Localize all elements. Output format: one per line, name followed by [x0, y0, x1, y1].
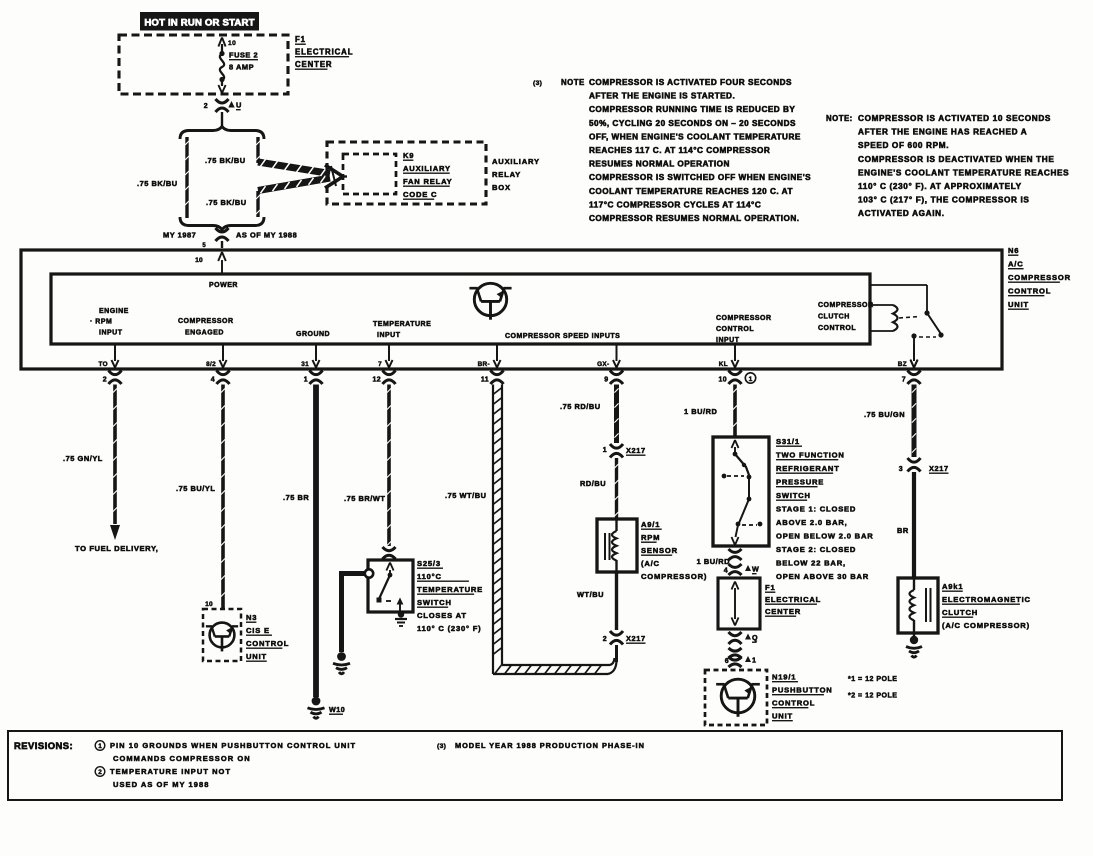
svg-text:COMPRESSOR RUNNING TIME IS RED: COMPRESSOR RUNNING TIME IS REDUCED BY [589, 105, 795, 114]
svg-text:REVISIONS:: REVISIONS: [14, 740, 73, 751]
svg-text:1: 1 [603, 447, 607, 454]
svg-text:ENGINE'S COOLANT TEMPERATURE R: ENGINE'S COOLANT TEMPERATURE REACHES [858, 168, 1069, 177]
svg-text:CLUTCH: CLUTCH [942, 608, 978, 617]
svg-text:2: 2 [603, 636, 607, 643]
svg-text:UNIT: UNIT [1008, 300, 1029, 309]
svg-text:STAGE 2: CLOSED: STAGE 2: CLOSED [776, 545, 856, 554]
svg-text:5: 5 [202, 243, 206, 249]
svg-text:*1 = 12 POLE: *1 = 12 POLE [848, 676, 897, 683]
svg-text:USED AS OF MY 1988: USED AS OF MY 1988 [113, 780, 209, 789]
svg-text:OPEN ABOVE 30 BAR: OPEN ABOVE 30 BAR [776, 572, 869, 581]
svg-text:1: 1 [752, 656, 756, 665]
svg-text:10: 10 [195, 257, 203, 264]
svg-text:CONTROL: CONTROL [246, 639, 289, 648]
svg-text:COOLANT TEMPERATURE REACHES 12: COOLANT TEMPERATURE REACHES 120 C. AT [589, 187, 793, 196]
svg-text:.75 BK/BU: .75 BK/BU [206, 198, 247, 207]
svg-text:CODE C: CODE C [403, 190, 437, 199]
svg-text:BR: BR [897, 526, 909, 535]
svg-text:4: 4 [211, 377, 215, 384]
svg-text:AUXILIARY: AUXILIARY [492, 157, 540, 166]
svg-text:HOT IN RUN OR START: HOT IN RUN OR START [144, 18, 254, 29]
svg-text:AS OF MY 1988: AS OF MY 1988 [236, 231, 297, 240]
svg-text:BZ: BZ [898, 361, 907, 368]
svg-text:2: 2 [204, 103, 208, 110]
svg-text:3: 3 [899, 466, 903, 473]
svg-text:CONTROL: CONTROL [818, 325, 856, 332]
svg-text:X217: X217 [626, 634, 646, 643]
svg-text:TEMPERATURE: TEMPERATURE [417, 585, 483, 594]
svg-text:50%, CYCLING 20 SECONDS ON – 2: 50%, CYCLING 20 SECONDS ON – 20 SECONDS [589, 119, 796, 128]
svg-text:NOTE:: NOTE: [826, 114, 853, 123]
svg-text:4: 4 [724, 568, 728, 575]
svg-text:(A/C COMPRESSOR): (A/C COMPRESSOR) [942, 621, 1030, 630]
svg-text:.75 BU/YL: .75 BU/YL [176, 484, 215, 493]
svg-text:1: 1 [98, 743, 102, 750]
svg-text:CLOSES AT: CLOSES AT [417, 611, 467, 620]
svg-text:ELECTRICAL: ELECTRICAL [295, 48, 353, 57]
svg-text:2: 2 [103, 377, 107, 384]
svg-text:10: 10 [228, 40, 236, 47]
svg-text:REFRIGERANT: REFRIGERANT [776, 464, 840, 473]
svg-text:S25/3: S25/3 [417, 559, 441, 568]
svg-text:(3): (3) [437, 743, 446, 750]
svg-text:WT/BU: WT/BU [577, 590, 604, 599]
svg-text:N19/1: N19/1 [772, 673, 796, 682]
svg-text:A/C: A/C [1008, 260, 1023, 269]
svg-text:COMPRESSOR: COMPRESSOR [1008, 273, 1071, 282]
svg-text:7: 7 [378, 361, 382, 368]
svg-text:X217: X217 [626, 446, 646, 455]
svg-text:S31/1: S31/1 [776, 437, 800, 446]
svg-text:INPUT: INPUT [99, 330, 123, 337]
svg-text:STAGE 1: CLOSED: STAGE 1: CLOSED [776, 505, 856, 514]
svg-text:TWO FUNCTION: TWO FUNCTION [776, 451, 845, 460]
svg-text:ACTIVATED AGAIN.: ACTIVATED AGAIN. [858, 209, 945, 218]
svg-text:MY 1987: MY 1987 [163, 231, 196, 240]
svg-text:MODEL YEAR 1988 PRODUCTION PHA: MODEL YEAR 1988 PRODUCTION PHASE-IN [455, 741, 645, 750]
svg-text:UNIT: UNIT [772, 712, 793, 721]
svg-text:10: 10 [205, 601, 213, 608]
svg-text:12: 12 [373, 377, 382, 384]
svg-text:PUSHBUTTON: PUSHBUTTON [772, 686, 833, 695]
svg-text:COMPRESSOR IS ACTIVATED 10 SEC: COMPRESSOR IS ACTIVATED 10 SECONDS [858, 114, 1051, 123]
svg-text:.75 GN/YL: .75 GN/YL [63, 454, 103, 463]
svg-text:N3: N3 [246, 613, 257, 622]
svg-text:A9/1: A9/1 [641, 520, 660, 529]
svg-text:COMPRESSOR SPEED INPUTS: COMPRESSOR SPEED INPUTS [505, 333, 620, 340]
svg-text:TEMPERATURE INPUT NOT: TEMPERATURE INPUT NOT [110, 767, 231, 776]
svg-text:110°C: 110°C [417, 572, 442, 581]
svg-text:COMMANDS COMPRESSOR ON: COMMANDS COMPRESSOR ON [113, 754, 251, 763]
svg-text:ENGINE: ENGINE [99, 308, 129, 315]
svg-text:CLUTCH: CLUTCH [818, 314, 850, 321]
svg-text:AFTER THE ENGINE IS STARTED.: AFTER THE ENGINE IS STARTED. [589, 92, 735, 101]
svg-text:· RPM: · RPM [90, 319, 112, 326]
svg-text:10: 10 [719, 377, 728, 384]
svg-text:Q: Q [752, 633, 758, 642]
svg-text:COMPRESSOR: COMPRESSOR [178, 318, 234, 325]
svg-text:BELOW 22 BAR,: BELOW 22 BAR, [776, 559, 846, 568]
svg-text:CENTER: CENTER [765, 607, 801, 616]
svg-text:COMPRESSOR: COMPRESSOR [716, 315, 772, 322]
svg-text:NOTE: NOTE [561, 78, 585, 87]
svg-text:AFTER THE ENGINE HAS REACHED A: AFTER THE ENGINE HAS REACHED A [858, 128, 1027, 137]
svg-text:W10: W10 [329, 705, 345, 714]
svg-text:SWITCH: SWITCH [417, 598, 452, 607]
svg-text:117°C COMPRESSOR CYCLES AT 11: 117°C COMPRESSOR CYCLES AT 114°C [589, 200, 761, 209]
svg-text:COMPRESSOR): COMPRESSOR) [641, 572, 707, 581]
svg-text:COMPRESSOR IS DEACTIVATED WHEN: COMPRESSOR IS DEACTIVATED WHEN THE [858, 155, 1054, 164]
svg-text:SPEED OF 600 RPM.: SPEED OF 600 RPM. [858, 141, 949, 150]
svg-text:F1: F1 [765, 583, 775, 592]
svg-text:31: 31 [301, 361, 309, 368]
svg-text:TO: TO [99, 361, 108, 368]
svg-text:FAN RELAY: FAN RELAY [403, 177, 453, 186]
svg-text:X217: X217 [929, 464, 949, 473]
svg-text:U: U [236, 101, 242, 110]
svg-text:SWITCH: SWITCH [776, 491, 811, 500]
svg-text:TO FUEL DELIVERY,: TO FUEL DELIVERY, [75, 544, 158, 553]
svg-text:(3): (3) [533, 80, 542, 87]
svg-text:SENSOR: SENSOR [641, 546, 678, 555]
svg-text:.75 BR: .75 BR [283, 493, 309, 502]
svg-text:F1: F1 [295, 35, 306, 44]
svg-text:RPM: RPM [641, 533, 660, 542]
svg-text:.75 BU/GN: .75 BU/GN [864, 410, 905, 419]
svg-text:9: 9 [604, 377, 608, 384]
svg-text:KL: KL [719, 361, 728, 368]
svg-text:.75 RD/BU: .75 RD/BU [560, 402, 601, 411]
svg-text:7: 7 [902, 377, 906, 384]
svg-text:1 BU/RD: 1 BU/RD [697, 557, 731, 566]
svg-text:K9: K9 [403, 151, 414, 160]
svg-text:PIN 10 GROUNDS WHEN PUSHBUTTON: PIN 10 GROUNDS WHEN PUSHBUTTON CONTROL U… [110, 741, 356, 750]
svg-text:OPEN BELOW 2.0 BAR: OPEN BELOW 2.0 BAR [776, 532, 874, 541]
svg-text:110° C (230° F): 110° C (230° F) [417, 624, 482, 633]
svg-text:ELECTROMAGNETIC: ELECTROMAGNETIC [942, 595, 1031, 604]
svg-text:.75 BK/BU: .75 BK/BU [205, 156, 246, 165]
svg-text:COMPRESSOR IS SWITCHED OFF WHE: COMPRESSOR IS SWITCHED OFF WHEN ENGINE'S [589, 173, 811, 182]
svg-text:RELAY: RELAY [492, 170, 521, 179]
svg-text:W: W [752, 565, 759, 574]
svg-text:CONTROL: CONTROL [716, 326, 754, 333]
svg-text:RD/BU: RD/BU [580, 479, 606, 488]
svg-text:A9k1: A9k1 [942, 582, 963, 591]
svg-text:103° C (217° F), THE COMPRESSO: 103° C (217° F), THE COMPRESSOR IS [858, 196, 1030, 205]
svg-text:COMPRESSOR: COMPRESSOR [818, 302, 874, 309]
svg-text:2: 2 [98, 769, 102, 776]
svg-text:ABOVE 2.0 BAR,: ABOVE 2.0 BAR, [776, 518, 848, 527]
svg-text:CENTER: CENTER [295, 60, 332, 69]
svg-text:REACHES 117 C. AT 114°C COMPRE: REACHES 117 C. AT 114°C COMPRESSOR [589, 146, 770, 155]
svg-text:INPUT: INPUT [716, 337, 740, 344]
svg-text:POWER: POWER [209, 282, 238, 289]
svg-text:6: 6 [725, 658, 729, 665]
svg-text:1 BU/RD: 1 BU/RD [684, 407, 718, 416]
svg-text:BR-: BR- [478, 361, 490, 368]
svg-text:*2 = 12 POLE: *2 = 12 POLE [848, 693, 897, 700]
svg-text:FUSE 2: FUSE 2 [229, 51, 258, 60]
svg-text:UNIT: UNIT [246, 652, 267, 661]
svg-text:ENGAGED: ENGAGED [185, 330, 224, 337]
svg-text:.75 WT/BU: .75 WT/BU [445, 491, 487, 500]
svg-text:COMPRESSOR RESUMES NORMAL OPER: COMPRESSOR RESUMES NORMAL OPERATION. [589, 214, 800, 223]
svg-text:.75 BK/BU: .75 BK/BU [137, 179, 178, 188]
svg-text:ELECTRICAL: ELECTRICAL [765, 595, 821, 604]
svg-text:CONTROL: CONTROL [772, 699, 815, 708]
svg-text:.75 BR/WT: .75 BR/WT [344, 494, 386, 503]
svg-text:11: 11 [481, 377, 489, 384]
svg-text:(A/C: (A/C [641, 559, 660, 568]
svg-text:CIS E: CIS E [246, 626, 270, 635]
svg-text:8/2: 8/2 [206, 361, 216, 368]
svg-text:BOX: BOX [492, 183, 511, 192]
svg-text:CONTROL: CONTROL [1008, 287, 1051, 296]
svg-text:COMPRESSOR IS ACTIVATED FOUR S: COMPRESSOR IS ACTIVATED FOUR SECONDS [589, 78, 792, 87]
svg-text:1: 1 [749, 376, 753, 383]
svg-text:INPUT: INPUT [377, 332, 401, 339]
svg-text:N6: N6 [1008, 246, 1019, 255]
svg-text:1: 1 [304, 377, 308, 384]
svg-text:RESUMES NORMAL OPERATION: RESUMES NORMAL OPERATION [589, 160, 730, 169]
svg-text:110° C (230° F). AT APPROXIMAT: 110° C (230° F). AT APPROXIMATELY [858, 182, 1022, 191]
svg-text:GX-: GX- [597, 361, 609, 368]
svg-text:PRESSURE: PRESSURE [776, 478, 824, 487]
svg-text:8 AMP: 8 AMP [229, 63, 254, 72]
svg-text:AUXILIARY: AUXILIARY [403, 164, 451, 173]
svg-text:GROUND: GROUND [296, 331, 330, 338]
svg-text:TEMPERATURE: TEMPERATURE [373, 321, 431, 328]
svg-text:OFF, WHEN ENGINE'S COOLANT TEM: OFF, WHEN ENGINE'S COOLANT TEMPERATURE [589, 132, 801, 141]
